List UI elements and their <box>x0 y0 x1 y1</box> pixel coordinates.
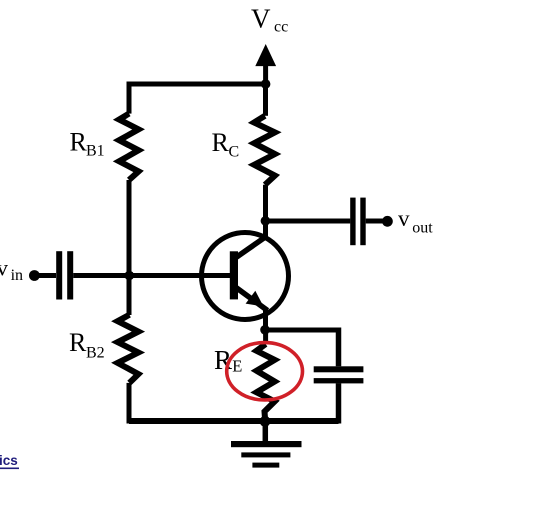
wire bottom rail <box>129 418 339 424</box>
capacitor bypass CE <box>314 366 364 372</box>
wire bypass branch top <box>336 328 342 367</box>
node collector junction <box>261 216 271 226</box>
svg-text:R: R <box>70 127 88 156</box>
Vcc supply arrow <box>263 62 268 84</box>
resistor RB1 <box>119 114 139 180</box>
svg-text:v: v <box>0 256 9 281</box>
node Vcc junction <box>261 79 271 89</box>
wire ground stub <box>263 421 269 441</box>
node emitter junction <box>260 325 270 335</box>
wire bypass branch bottom <box>336 383 342 423</box>
wire left branch <box>127 180 132 315</box>
svg-text:B1: B1 <box>86 143 105 160</box>
wire top rail <box>129 82 266 87</box>
resistor RB2 <box>118 315 139 383</box>
wire RE top lead <box>263 328 268 345</box>
wire capacitor to base <box>73 273 231 278</box>
highlight ellipse around RE <box>227 343 303 400</box>
wire capacitor to vout <box>366 219 388 224</box>
svg-text:out: out <box>412 220 433 237</box>
wire collector lead <box>263 185 268 238</box>
wire emitter lead <box>263 308 268 333</box>
ground <box>231 441 302 447</box>
svg-text:in: in <box>11 267 23 284</box>
wire RC top lead <box>263 84 268 116</box>
svg-text:V: V <box>251 4 271 34</box>
node vout terminal <box>382 216 393 227</box>
svg-text:C: C <box>229 143 240 160</box>
svg-text:B2: B2 <box>86 345 105 362</box>
transistor Q1 <box>202 233 289 320</box>
capacitor input coupling <box>56 251 62 299</box>
svg-text:cc: cc <box>274 19 288 36</box>
svg-text:R: R <box>212 128 230 157</box>
resistor RC <box>254 116 275 185</box>
svg-text:R: R <box>69 328 87 357</box>
node ground junction <box>260 416 271 427</box>
wire emitter node to bypass branch <box>265 328 339 333</box>
svg-text:ics: ics <box>0 453 18 468</box>
wire RB1 top lead <box>127 82 132 114</box>
svg-text:v: v <box>398 206 410 231</box>
capacitor output coupling <box>350 198 355 246</box>
node base junction <box>125 271 135 281</box>
wire collector to output capacitor <box>266 219 351 224</box>
node vin terminal <box>29 270 40 281</box>
wire vin to capacitor <box>34 273 56 278</box>
wire RB2 bottom lead <box>127 383 132 424</box>
svg-text:E: E <box>232 357 242 376</box>
resistor RE <box>257 344 275 421</box>
